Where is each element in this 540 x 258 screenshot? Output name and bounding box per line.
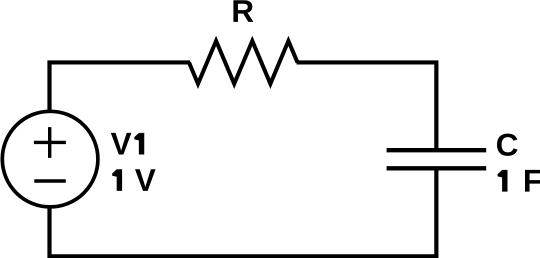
label C: [497, 134, 518, 156]
label R: [233, 0, 253, 22]
capacitor C bottom plate: [387, 166, 487, 170]
wire: right wire below capacitor, bottom wire, up to source bottom: [50, 168, 437, 256]
label 1 V : letter V: [135, 169, 156, 191]
label V1 : letter V: [111, 133, 132, 155]
label V1 : digit 1: [134, 133, 144, 155]
voltage source V1 circle: [2, 111, 98, 207]
wire: left wire from source top up to top-left corner, then top wire to resistor: [50, 62, 191, 113]
label 1 F : digit 1: [498, 170, 508, 192]
plus sign: [34, 127, 66, 158]
resistor R zigzag: [189, 41, 298, 84]
wire: top wire from resistor to top-right corner, down to capacitor top plate: [297, 62, 437, 150]
minus sign: [34, 179, 66, 182]
label 1 V : digit 1: [112, 169, 122, 191]
label 1 F : letter F: [525, 170, 540, 192]
capacitor C top plate: [387, 148, 487, 152]
